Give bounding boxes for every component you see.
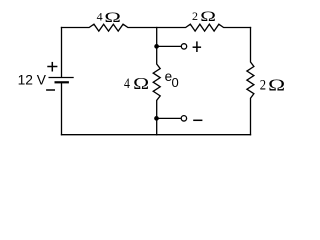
svg-text:Ω: Ω: [104, 10, 121, 26]
svg-text:2: 2: [260, 78, 266, 94]
svg-text:12 V: 12 V: [18, 73, 47, 88]
svg-text:Ω: Ω: [200, 9, 216, 25]
svg-text:2: 2: [192, 9, 198, 23]
svg-text:Ω: Ω: [268, 76, 285, 95]
svg-text:4: 4: [97, 10, 103, 24]
svg-text:Ω: Ω: [133, 74, 149, 93]
svg-text:4: 4: [124, 76, 130, 92]
svg-text:0: 0: [172, 75, 179, 90]
